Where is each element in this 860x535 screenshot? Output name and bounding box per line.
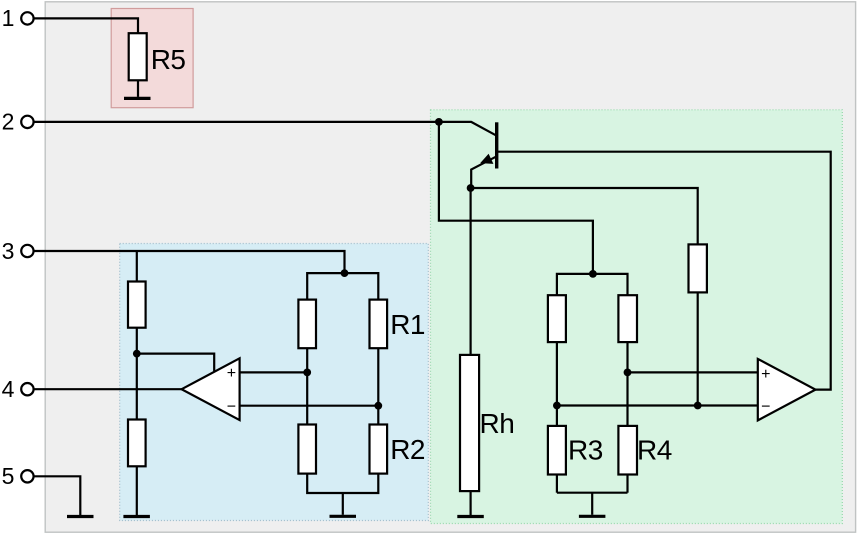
pin 5 terminal (21, 470, 33, 482)
wire U2 plus input (628, 371, 760, 373)
node junction dot (U1 plus tap) (303, 369, 311, 377)
wire Q1 base to op-amp U2 output (498, 152, 831, 390)
wire pin1 to R5 (35, 18, 139, 33)
wire pin2 to Q1 collector (35, 122, 496, 135)
ground (blue mid) (330, 515, 357, 518)
pin 4 terminal (21, 383, 33, 395)
node B junction dot (emitter node) (467, 184, 475, 192)
highlight box right stage (green) (431, 110, 843, 524)
svg-text:R3: R3 (568, 434, 603, 465)
wire blue mid bottoms (307, 474, 378, 493)
wire blue bottom to ground (342, 493, 344, 515)
wire R6 to minus net (697, 292, 699, 405)
resistor R3 (548, 426, 566, 475)
resistor (blue mid upper) (298, 300, 316, 349)
pin 2 terminal (21, 116, 33, 128)
op-amp U1 (182, 358, 240, 420)
svg-text:5: 5 (2, 463, 15, 489)
wire pin3 to blue left column (136, 251, 138, 282)
highlight box left stage (blue) (120, 244, 429, 521)
wire blue mid branch (306, 348, 308, 424)
transistor Q1 base bar (495, 122, 498, 168)
node junction dot (U1 minus tap) (374, 402, 382, 410)
wire blue left tap to U1 (137, 354, 214, 372)
node junction dot (blue divider top) (341, 269, 349, 277)
svg-text:2: 2 (2, 109, 15, 135)
wire green divider top split (557, 274, 628, 295)
wire green right branch (626, 342, 628, 426)
resistor Rh (460, 355, 479, 491)
ground (Rh) (457, 515, 484, 518)
ground (R5) (124, 97, 151, 100)
svg-text:+: + (227, 365, 236, 382)
wire pin5 to ground (35, 476, 81, 515)
svg-text:+: + (761, 366, 770, 383)
wire emitter node to resistor R6 (471, 188, 698, 244)
wire Rh to ground (470, 491, 472, 515)
wire R5 to ground (137, 80, 139, 97)
wire blue left column to ground (136, 466, 138, 515)
ground (blue left) (123, 515, 149, 518)
resistor R2 (370, 425, 388, 474)
wire U2 minus input (557, 404, 759, 406)
node junction dot (R4 / U2 plus) (624, 369, 632, 377)
svg-text:R5: R5 (151, 44, 186, 75)
wire R3 to bottom (556, 475, 558, 493)
resistor R4 (618, 426, 637, 475)
svg-text:−: − (227, 398, 236, 415)
pin 1 terminal (21, 12, 33, 24)
wire node A to green divider top (439, 122, 593, 274)
resistor (green upper right) (618, 295, 637, 342)
svg-text:R4: R4 (637, 434, 672, 465)
wire U1 output to pin4 (35, 388, 182, 390)
pin 3 terminal (21, 245, 33, 257)
node junction dot (R6 / U2 minus) (694, 402, 702, 410)
svg-text:Rh: Rh (480, 408, 515, 439)
node junction dot (blue left tap) (133, 350, 141, 358)
svg-text:4: 4 (2, 376, 15, 402)
transistor Q1 emitter arrow (480, 154, 493, 164)
svg-text:3: 3 (2, 238, 15, 264)
resistor R5 (129, 33, 147, 80)
wire U1 plus input (240, 371, 307, 373)
ground (R3 R4) (579, 515, 606, 518)
node junction dot (R3 / U2 minus) (553, 402, 561, 410)
svg-text:R2: R2 (390, 434, 425, 465)
highlight box R5 (pink) (111, 9, 193, 108)
svg-text:−: − (761, 399, 770, 416)
resistor (green upper left) (548, 295, 566, 342)
wire U1 minus input (240, 405, 378, 407)
resistor (blue left upper) (128, 282, 146, 328)
wire R3 R4 bottom join (557, 492, 628, 494)
resistor R1 (370, 300, 388, 349)
wire emitter node to Rh (470, 188, 472, 355)
node A junction dot (pin2 / divider feed) (435, 118, 443, 126)
svg-text:R1: R1 (390, 309, 425, 340)
transistor Q1 emitter lead (471, 156, 497, 188)
wire pin3 to blue divider top (35, 251, 345, 273)
resistor (blue mid lower) (298, 425, 316, 474)
svg-text:1: 1 (2, 5, 15, 31)
wire R4 to bottom (626, 475, 628, 493)
wire bottom to ground (green) (591, 493, 593, 515)
ground (pin5) (67, 515, 94, 518)
resistor (blue left lower) (128, 420, 146, 467)
wire blue left column middle (136, 328, 138, 420)
node junction dot (green divider top) (589, 270, 597, 278)
wire R1 branch down (377, 348, 379, 424)
resistor R6 (unlabeled, feedback) (689, 244, 707, 292)
wire blue divider top split (307, 273, 378, 300)
op-amp U2 (758, 359, 816, 421)
wire green left branch (556, 342, 558, 426)
